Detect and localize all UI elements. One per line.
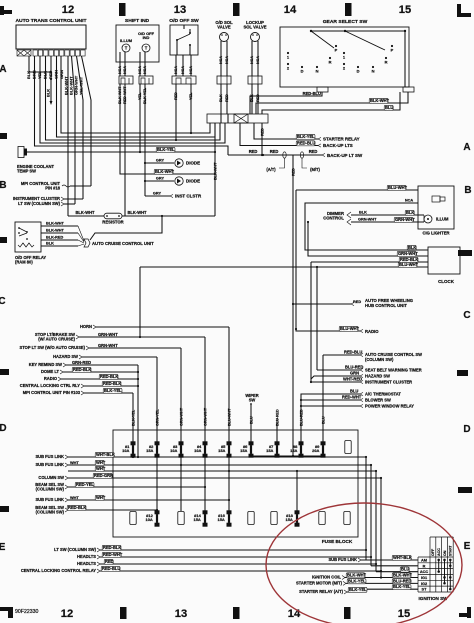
svg-text:15A: 15A bbox=[218, 448, 225, 453]
svg-text:RED-BLK: RED-BLK bbox=[103, 381, 121, 386]
svg-text:GEAR SELECT SW: GEAR SELECT SW bbox=[323, 19, 368, 25]
svg-text:RED-WHT: RED-WHT bbox=[103, 552, 123, 557]
svg-text:R: R bbox=[423, 564, 426, 568]
svg-text:20A: 20A bbox=[312, 448, 319, 453]
svg-text:10A: 10A bbox=[194, 448, 201, 453]
svg-text:OFF: OFF bbox=[431, 548, 435, 556]
svg-text:HORN: HORN bbox=[80, 324, 92, 329]
svg-text:RED-BLK: RED-BLK bbox=[68, 505, 86, 510]
svg-text:10A: 10A bbox=[122, 448, 129, 453]
svg-text:RED: RED bbox=[292, 168, 296, 176]
svg-text:RESISTOR: RESISTOR bbox=[102, 220, 123, 225]
svg-text:BLK-WHT: BLK-WHT bbox=[46, 229, 65, 233]
svg-text:STOP LT SW (W/O AUTO CRUISE): STOP LT SW (W/O AUTO CRUISE) bbox=[20, 345, 86, 350]
svg-text:15A: 15A bbox=[194, 517, 201, 522]
svg-text:BLU-WHT: BLU-WHT bbox=[388, 185, 408, 190]
svg-text:GRN-WHT: GRN-WHT bbox=[395, 217, 415, 222]
svg-text:10A: 10A bbox=[146, 517, 153, 522]
svg-text:RED: RED bbox=[270, 149, 279, 154]
svg-text:GRN-WHT: GRN-WHT bbox=[98, 332, 118, 337]
svg-text:BLU-WHT: BLU-WHT bbox=[399, 262, 419, 267]
svg-text:RED-BLU: RED-BLU bbox=[303, 91, 321, 96]
svg-text:POWER WINDOW RELAY: POWER WINDOW RELAY bbox=[365, 404, 414, 409]
svg-text:PIN #18: PIN #18 bbox=[45, 186, 60, 191]
svg-text:BLK: BLK bbox=[46, 89, 51, 97]
svg-text:A: A bbox=[0, 64, 7, 75]
svg-text:GRN-WHT: GRN-WHT bbox=[98, 343, 118, 348]
svg-text:(COLUMN SW): (COLUMN SW) bbox=[36, 510, 65, 515]
svg-text:C: C bbox=[0, 296, 6, 307]
svg-text:15A: 15A bbox=[290, 448, 297, 453]
svg-text:NCA: NCA bbox=[250, 56, 254, 64]
svg-text:14: 14 bbox=[288, 608, 301, 620]
svg-text:ACC: ACC bbox=[420, 570, 429, 574]
svg-text:12: 12 bbox=[62, 4, 74, 16]
svg-text:(M/T): (M/T) bbox=[310, 167, 320, 172]
svg-text:RED-BLU: RED-BLU bbox=[344, 350, 362, 355]
svg-text:VALVE: VALVE bbox=[217, 25, 231, 30]
svg-text:RED-BLU: RED-BLU bbox=[102, 566, 120, 571]
svg-text:WHT-BLK: WHT-BLK bbox=[393, 555, 412, 560]
svg-text:RED: RED bbox=[249, 149, 258, 154]
svg-text:BLK: BLK bbox=[406, 210, 414, 215]
svg-text:RADIO: RADIO bbox=[44, 376, 57, 381]
svg-text:B: B bbox=[0, 180, 7, 191]
svg-text:R: R bbox=[329, 60, 332, 65]
svg-text:C: C bbox=[463, 310, 470, 321]
svg-text:SEAT BELT WARNING TIMER: SEAT BELT WARNING TIMER bbox=[365, 368, 422, 373]
svg-text:15A: 15A bbox=[218, 517, 225, 522]
svg-text:NCA: NCA bbox=[181, 66, 185, 74]
svg-text:NCA: NCA bbox=[143, 66, 147, 74]
svg-text:P: P bbox=[335, 48, 338, 53]
svg-text:RED: RED bbox=[309, 149, 318, 154]
svg-text:RED-BLK: RED-BLK bbox=[103, 545, 121, 550]
svg-text:BLK: BLK bbox=[408, 245, 416, 250]
svg-text:DIODE: DIODE bbox=[186, 179, 200, 184]
svg-text:15A: 15A bbox=[286, 517, 293, 522]
svg-text:CENTRAL LOCKING CONTROL RELAY: CENTRAL LOCKING CONTROL RELAY bbox=[21, 568, 96, 573]
svg-text:(W/ AUTO CRUISE): (W/ AUTO CRUISE) bbox=[38, 337, 75, 342]
svg-text:BLK-WHT: BLK-WHT bbox=[155, 169, 175, 174]
svg-text:BLK-YEL: BLK-YEL bbox=[297, 134, 315, 139]
svg-text:WHT-RED: WHT-RED bbox=[343, 377, 362, 382]
svg-text:BACK-UP LT SW: BACK-UP LT SW bbox=[327, 153, 363, 158]
svg-text:GRN-RED: GRN-RED bbox=[72, 360, 91, 365]
svg-text:P: P bbox=[391, 48, 394, 53]
svg-text:12: 12 bbox=[61, 608, 73, 620]
svg-text:ILLUM: ILLUM bbox=[436, 217, 449, 222]
svg-text:BLK-YEL: BLK-YEL bbox=[349, 587, 367, 592]
svg-text:HEADLTS: HEADLTS bbox=[77, 561, 96, 566]
svg-text:RED: RED bbox=[105, 559, 114, 564]
svg-text:INST CLSTR: INST CLSTR bbox=[175, 194, 202, 199]
svg-text:NCA: NCA bbox=[189, 66, 193, 74]
svg-text:NCA: NCA bbox=[405, 199, 414, 203]
svg-text:WHT: WHT bbox=[96, 460, 106, 465]
svg-text:LT SW (COLUMN SW): LT SW (COLUMN SW) bbox=[18, 201, 60, 206]
svg-text:BLK-WHT: BLK-WHT bbox=[347, 573, 367, 578]
svg-text:BLK-WHT: BLK-WHT bbox=[46, 222, 65, 226]
svg-text:GRN-YEL: GRN-YEL bbox=[155, 409, 159, 426]
svg-text:D: D bbox=[463, 424, 470, 435]
svg-text:14: 14 bbox=[284, 4, 297, 16]
svg-text:WHT: WHT bbox=[70, 461, 79, 465]
svg-text:GRN-WHT: GRN-WHT bbox=[179, 407, 183, 426]
svg-text:HEADLTS: HEADLTS bbox=[77, 554, 96, 559]
svg-text:O/D OFF SW: O/D OFF SW bbox=[169, 18, 199, 24]
svg-text:15: 15 bbox=[399, 4, 411, 16]
svg-text:BLK-WHT: BLK-WHT bbox=[127, 210, 147, 215]
svg-text:ILLUM: ILLUM bbox=[120, 38, 133, 43]
svg-text:N: N bbox=[316, 69, 319, 74]
svg-text:STARTER MOTOR (M/T): STARTER MOTOR (M/T) bbox=[296, 580, 343, 585]
svg-text:ST: ST bbox=[422, 588, 428, 592]
svg-text:10A: 10A bbox=[170, 448, 177, 453]
svg-text:BLK-YEL: BLK-YEL bbox=[393, 584, 411, 589]
svg-text:13: 13 bbox=[175, 608, 187, 620]
svg-text:SUB FUS LINK: SUB FUS LINK bbox=[35, 462, 64, 467]
svg-text:NCA: NCA bbox=[174, 66, 178, 74]
svg-text:SUB FUS LINK: SUB FUS LINK bbox=[35, 454, 64, 459]
svg-text:SUB FUS LINK: SUB FUS LINK bbox=[328, 557, 357, 562]
svg-text:(COLUMN SW): (COLUMN SW) bbox=[365, 357, 394, 362]
svg-text:ON: ON bbox=[443, 550, 447, 556]
svg-text:BLU-RED: BLU-RED bbox=[299, 409, 303, 426]
svg-text:NCA: NCA bbox=[256, 56, 260, 64]
svg-text:NCA: NCA bbox=[118, 66, 122, 74]
svg-text:KEY REMIND SW: KEY REMIND SW bbox=[29, 362, 62, 367]
svg-text:AUTO TRANS CONTROL UNIT: AUTO TRANS CONTROL UNIT bbox=[15, 18, 86, 24]
svg-text:STARTER RELAY (A/T): STARTER RELAY (A/T) bbox=[299, 589, 344, 594]
svg-text:IG1: IG1 bbox=[421, 576, 428, 580]
svg-text:HAZARD SW: HAZARD SW bbox=[365, 374, 390, 379]
svg-text:D: D bbox=[357, 69, 360, 74]
svg-text:SHIFT IND: SHIFT IND bbox=[125, 18, 150, 24]
svg-text:BLU: BLU bbox=[385, 105, 393, 110]
svg-text:BLU: BLU bbox=[350, 389, 358, 394]
svg-text:BLK-WHT: BLK-WHT bbox=[214, 162, 218, 180]
svg-text:RED-BLK: RED-BLK bbox=[100, 374, 118, 379]
svg-text:D: D bbox=[301, 69, 304, 74]
svg-text:15A: 15A bbox=[266, 448, 273, 453]
svg-text:RADIO: RADIO bbox=[365, 329, 379, 334]
svg-text:IGNITION COIL: IGNITION COIL bbox=[312, 575, 342, 580]
svg-text:A/C THERMOSTAT: A/C THERMOSTAT bbox=[365, 392, 401, 397]
svg-text:SW: SW bbox=[249, 398, 256, 403]
svg-text:BLK: BLK bbox=[46, 242, 54, 246]
svg-text:T: T bbox=[145, 46, 148, 51]
svg-text:RED-YEL: RED-YEL bbox=[76, 482, 94, 487]
svg-text:BLK-YEL: BLK-YEL bbox=[348, 578, 366, 583]
svg-text:GRN-WHT: GRN-WHT bbox=[203, 407, 207, 426]
svg-text:BLK-YEL: BLK-YEL bbox=[131, 409, 135, 426]
svg-text:CONTROL: CONTROL bbox=[323, 216, 344, 221]
svg-text:BLK-YEL: BLK-YEL bbox=[157, 147, 175, 152]
svg-text:N: N bbox=[372, 69, 375, 74]
svg-text:FUSE BLOCK: FUSE BLOCK bbox=[322, 539, 353, 544]
svg-text:NCA: NCA bbox=[219, 56, 223, 64]
svg-text:BLU: BLU bbox=[321, 416, 325, 424]
svg-text:WHT-BLK: WHT-BLK bbox=[96, 452, 115, 457]
svg-text:SUB FUS LINK: SUB FUS LINK bbox=[35, 497, 64, 502]
svg-text:RED: RED bbox=[353, 300, 361, 304]
svg-text:NCA: NCA bbox=[138, 66, 142, 74]
svg-text:RED-WHT: RED-WHT bbox=[342, 395, 362, 400]
svg-text:AM: AM bbox=[421, 559, 427, 563]
svg-text:DIODE: DIODE bbox=[186, 161, 200, 166]
svg-text:(A/T): (A/T) bbox=[266, 167, 276, 172]
svg-text:T: T bbox=[125, 46, 128, 51]
svg-text:B: B bbox=[464, 185, 471, 196]
svg-text:15: 15 bbox=[398, 608, 410, 620]
svg-text:BLU-RED: BLU-RED bbox=[275, 409, 279, 426]
svg-text:GRY: GRY bbox=[156, 159, 165, 163]
svg-text:BLK-YEL: BLK-YEL bbox=[104, 388, 122, 393]
svg-text:BLK-WHT: BLK-WHT bbox=[393, 573, 413, 578]
svg-text:E: E bbox=[0, 542, 6, 553]
svg-text:15A: 15A bbox=[240, 448, 247, 453]
svg-text:GRN-WHT: GRN-WHT bbox=[358, 218, 377, 222]
svg-text:TEMP SW: TEMP SW bbox=[17, 169, 36, 174]
svg-text:INSTRUMENT CLUSTER: INSTRUMENT CLUSTER bbox=[365, 380, 412, 385]
svg-text:CLOCK: CLOCK bbox=[438, 279, 455, 284]
svg-text:GRY: GRY bbox=[156, 177, 165, 181]
svg-text:HAZARD SW: HAZARD SW bbox=[53, 354, 78, 359]
svg-text:DOME LT: DOME LT bbox=[41, 369, 60, 374]
svg-text:BLU-WHT: BLU-WHT bbox=[227, 408, 231, 426]
svg-text:COLUMN SW: COLUMN SW bbox=[38, 475, 64, 480]
svg-text:CENTRAL LOCKING CTRL RLY: CENTRAL LOCKING CTRL RLY bbox=[20, 383, 80, 388]
svg-text:13: 13 bbox=[174, 4, 186, 16]
svg-text:BLU: BLU bbox=[401, 567, 409, 572]
svg-text:BLK: BLK bbox=[359, 211, 367, 215]
svg-text:ACC: ACC bbox=[437, 548, 441, 556]
svg-text:HUB CONTROL UNIT: HUB CONTROL UNIT bbox=[365, 303, 407, 308]
svg-text:LT SW (COLUMN SW): LT SW (COLUMN SW) bbox=[54, 547, 96, 552]
svg-text:WHT: WHT bbox=[96, 495, 106, 500]
svg-text:BLU-RED: BLU-RED bbox=[345, 365, 363, 370]
svg-text:BLU: BLU bbox=[249, 416, 253, 424]
svg-text:NCA: NCA bbox=[123, 66, 127, 74]
svg-text:BLU-RED: BLU-RED bbox=[393, 578, 411, 583]
svg-text:BLK-WHT: BLK-WHT bbox=[75, 210, 95, 215]
svg-text:CIG LIGHTER: CIG LIGHTER bbox=[422, 231, 449, 236]
svg-text:SOL VALVE: SOL VALVE bbox=[243, 25, 266, 30]
svg-text:WHT: WHT bbox=[96, 466, 106, 471]
svg-text:GRY: GRY bbox=[153, 192, 162, 196]
svg-text:A: A bbox=[463, 142, 470, 153]
svg-text:STARTER RELAY: STARTER RELAY bbox=[323, 137, 360, 142]
svg-text:BACK-UP LTS: BACK-UP LTS bbox=[323, 143, 353, 148]
svg-text:15A: 15A bbox=[146, 448, 153, 453]
svg-text:BLU-WHT: BLU-WHT bbox=[340, 326, 360, 331]
svg-text:IG2: IG2 bbox=[421, 582, 427, 586]
svg-text:AUTO CRUISE CONTROL UNIT: AUTO CRUISE CONTROL UNIT bbox=[92, 241, 154, 246]
svg-text:WHT: WHT bbox=[70, 496, 79, 500]
svg-text:(RAM 80): (RAM 80) bbox=[15, 260, 33, 265]
svg-text:IND: IND bbox=[143, 35, 150, 40]
svg-text:BLOWER SW: BLOWER SW bbox=[365, 398, 391, 403]
svg-text:BLK-RED: BLK-RED bbox=[46, 236, 63, 240]
svg-text:NCA: NCA bbox=[225, 56, 229, 64]
svg-text:RED: RED bbox=[260, 128, 264, 136]
svg-text:E: E bbox=[464, 541, 471, 552]
svg-text:START: START bbox=[449, 545, 453, 556]
svg-text:RED-BLK: RED-BLK bbox=[73, 367, 91, 372]
svg-text:90F22330: 90F22330 bbox=[15, 609, 39, 615]
svg-text:GRN-WHT: GRN-WHT bbox=[398, 251, 418, 256]
svg-text:GRN: GRN bbox=[350, 371, 359, 376]
svg-text:R: R bbox=[385, 60, 388, 65]
svg-text:RED-GRN: RED-GRN bbox=[94, 473, 113, 478]
svg-text:MPI CONTROL UNIT PIN #103: MPI CONTROL UNIT PIN #103 bbox=[23, 390, 81, 395]
svg-text:RED-BLU: RED-BLU bbox=[297, 141, 315, 146]
svg-text:BLK-WHT: BLK-WHT bbox=[370, 98, 390, 103]
svg-text:(COLUMN SW): (COLUMN SW) bbox=[36, 487, 65, 492]
svg-text:D: D bbox=[0, 423, 7, 434]
